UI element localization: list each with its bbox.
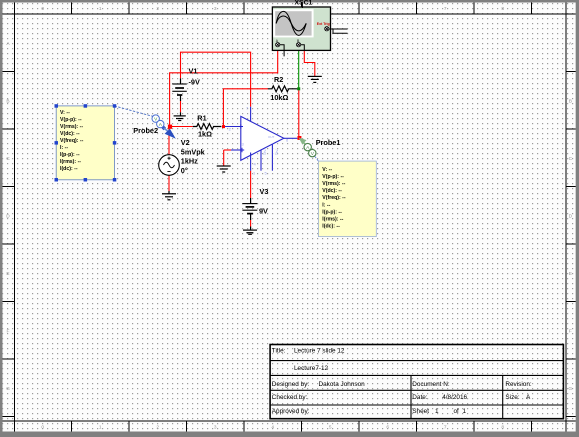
svg-text:1: 1 — [435, 408, 439, 415]
svg-text:of: of — [454, 408, 460, 415]
svg-text:Approved by:: Approved by: — [272, 408, 310, 415]
svg-text:8: 8 — [501, 6, 504, 12]
svg-text:4: 4 — [271, 425, 274, 431]
svg-text:Checked by:: Checked by: — [272, 394, 308, 401]
svg-text:I(rms): --: I(rms): -- — [322, 217, 343, 223]
svg-text:Sheet: Sheet — [412, 408, 429, 415]
svg-text:0: 0 — [41, 6, 44, 12]
svg-text:Dakota Johnson: Dakota Johnson — [319, 381, 366, 388]
svg-text:R1: R1 — [197, 114, 206, 123]
svg-text:10kΩ: 10kΩ — [270, 93, 288, 102]
svg-text:G: G — [568, 386, 572, 392]
svg-text:Title:: Title: — [272, 348, 286, 355]
svg-text:741: 741 — [263, 149, 267, 155]
svg-text:Size:: Size: — [505, 394, 519, 401]
svg-text:V(p-p): --: V(p-p): -- — [60, 117, 82, 123]
svg-text:E: E — [569, 271, 572, 277]
svg-text:D: D — [6, 213, 10, 219]
svg-text:1kHz: 1kHz — [181, 157, 198, 166]
svg-text:V(freq): --: V(freq): -- — [322, 195, 346, 201]
svg-text:V(freq): --: V(freq): -- — [60, 138, 84, 144]
svg-text:V(p-p): --: V(p-p): -- — [322, 174, 344, 180]
svg-text:6: 6 — [386, 425, 389, 431]
svg-text:Probe1: Probe1 — [316, 138, 341, 147]
svg-text:V(dc): --: V(dc): -- — [60, 131, 80, 137]
svg-text:1kΩ: 1kΩ — [198, 129, 212, 138]
svg-text:V(rms): --: V(rms): -- — [322, 181, 345, 187]
svg-text:0°: 0° — [181, 166, 188, 175]
svg-text:C: C — [6, 156, 10, 162]
svg-text:4/8/2016: 4/8/2016 — [442, 394, 467, 401]
svg-text:V: --: V: -- — [322, 167, 332, 173]
svg-text:7: 7 — [444, 6, 447, 12]
svg-text:E: E — [6, 271, 9, 277]
svg-text:F: F — [7, 328, 10, 334]
svg-text:OUT: OUT — [268, 135, 275, 139]
svg-text:V1: V1 — [189, 66, 198, 75]
svg-text:I(dc): --: I(dc): -- — [60, 166, 78, 172]
svg-text:Probe2: Probe2 — [133, 126, 158, 135]
svg-text:741: 741 — [275, 149, 279, 155]
svg-text:I(p-p): --: I(p-p): -- — [60, 152, 80, 158]
svg-text:-9V: -9V — [189, 77, 200, 86]
svg-text:Designed by:: Designed by: — [272, 381, 310, 388]
svg-text:XSC1: XSC1 — [295, 0, 313, 7]
svg-text:B: B — [569, 98, 572, 104]
svg-text:3: 3 — [214, 425, 217, 431]
svg-text:2: 2 — [156, 425, 159, 431]
svg-text:V(dc): --: V(dc): -- — [322, 188, 342, 194]
svg-text:Lecture7-12: Lecture7-12 — [294, 365, 329, 372]
svg-text:Date:: Date: — [412, 394, 427, 401]
svg-text:5: 5 — [329, 425, 332, 431]
svg-text:I(p-p): --: I(p-p): -- — [322, 209, 342, 215]
svg-text:I(rms): --: I(rms): -- — [60, 159, 81, 165]
svg-text:Ext Trig: Ext Trig — [317, 22, 330, 26]
svg-text:I: --: I: -- — [322, 202, 330, 208]
svg-text:C: C — [569, 156, 573, 162]
svg-text:D: D — [569, 213, 573, 219]
svg-text:6: 6 — [386, 6, 389, 12]
svg-text:3: 3 — [214, 6, 217, 12]
svg-text:V3: V3 — [260, 187, 269, 196]
svg-text:9V: 9V — [259, 207, 268, 216]
svg-text:5mVpk: 5mVpk — [181, 147, 206, 156]
svg-text:Revision:: Revision: — [505, 381, 532, 388]
svg-text:2: 2 — [156, 6, 159, 12]
svg-text:B: B — [6, 98, 9, 104]
svg-text:I(dc): --: I(dc): -- — [322, 224, 340, 230]
svg-text:1: 1 — [99, 425, 102, 431]
svg-text:I: --: I: -- — [60, 145, 68, 151]
svg-text:V(rms): --: V(rms): -- — [60, 124, 83, 130]
svg-text:7: 7 — [444, 425, 447, 431]
svg-text:V2: V2 — [181, 138, 190, 147]
svg-text:G: G — [6, 386, 10, 392]
svg-text:Lecture 7 slide 12: Lecture 7 slide 12 — [294, 348, 345, 355]
svg-text:A: A — [526, 394, 531, 401]
svg-text:F: F — [569, 328, 572, 334]
svg-text:8: 8 — [501, 425, 504, 431]
svg-text:V: --: V: -- — [60, 110, 70, 116]
svg-text:0: 0 — [41, 425, 44, 431]
svg-text:R2: R2 — [274, 75, 283, 84]
svg-text:Document N:: Document N: — [412, 381, 450, 388]
svg-text:1: 1 — [463, 408, 467, 415]
svg-text:1: 1 — [99, 6, 102, 12]
